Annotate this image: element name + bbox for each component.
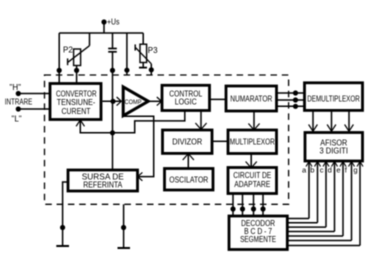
ground bar P3 stub (139, 67, 147, 69)
wire BCD line 1 (232, 194, 234, 217)
op-amp comparator COMP (123, 87, 148, 116)
potentiometer P3 (135, 44, 158, 64)
wire comparator to control logic (148, 100, 161, 102)
node junction dot middle ground (121, 225, 126, 230)
wire sursa to ground (63, 182, 68, 245)
wire oscilator to divizor (183, 154, 194, 169)
node junction dot sursa ground (60, 225, 65, 230)
wire input L (18, 108, 49, 110)
wire multiplexor to circuit de adaptare (246, 154, 257, 168)
svg-text:g: g (353, 166, 357, 175)
block control logic U2 (162, 85, 210, 110)
segment line d (288, 161, 338, 231)
svg-text:DEMULTIPLEXOR: DEMULTIPLEXOR (307, 95, 360, 104)
svg-text:LOGIC: LOGIC (175, 98, 197, 107)
wire rail right corner to P3 (142, 33, 144, 44)
node junction dot P3 wiper (149, 67, 154, 72)
wire comparator reference to sursa (123, 116, 154, 181)
wire capacitor down to comparator input (112, 52, 114, 170)
svg-text:REFERINTA: REFERINTA (83, 181, 122, 190)
node dot bit 2 (293, 97, 298, 102)
segment line c (288, 161, 330, 227)
arrowhead into comparator (117, 97, 122, 106)
wire P3 bottom stub (142, 63, 144, 67)
node junction dot capacitor boundary (110, 68, 115, 73)
arrowhead into control logic (157, 97, 162, 106)
svg-text:3 DIGITI: 3 DIGITI (320, 147, 349, 156)
svg-text:b: b (310, 166, 314, 175)
dashed instrument boundary (45, 75, 289, 204)
wire supply feed into block (126, 33, 128, 75)
wire input H (18, 93, 49, 95)
node junction dot supply feed (124, 68, 129, 73)
svg-text:CIRCUIT DE: CIRCUIT DE (233, 171, 271, 180)
wire demux to afisor 2 (327, 110, 336, 131)
node dot bit 3 (293, 104, 298, 109)
wire P3 wiper into block (150, 64, 152, 75)
wire top supply rail (59, 32, 143, 34)
wire numarator output bit 2 (277, 99, 305, 101)
wire demux to afisor 1 (309, 110, 318, 131)
block decodor BCD-7 segmente U11 (229, 216, 287, 250)
svg-text:"L": "L" (12, 115, 22, 124)
wire numarator output bit 3 (277, 105, 305, 107)
wire BCD line 4 (262, 194, 264, 217)
wire control logic to numarator (210, 98, 227, 100)
block multiplexor U7 (228, 130, 277, 154)
svg-text:NUMARATOR: NUMARATOR (230, 95, 272, 104)
svg-text:DIVIZOR: DIVIZOR (172, 138, 202, 147)
ground left (56, 245, 69, 247)
svg-text:COMP: COMP (125, 99, 142, 106)
wire BCD line 3 (253, 194, 255, 217)
node dot BCD 2 (240, 206, 245, 211)
wire feedback staircase control logic to convertor (76, 111, 185, 133)
svg-text:TENSIUNE-: TENSIUNE- (57, 98, 96, 107)
block numarator U3 (226, 86, 277, 111)
node terminal L (12, 106, 22, 123)
svg-text:P3: P3 (148, 46, 158, 55)
block divizor U6 (163, 130, 213, 153)
segment line a (288, 161, 313, 218)
wire boundary to ground middle (123, 204, 125, 247)
node dot BCD 3 (251, 206, 256, 211)
node junction dot feedback on sursa line (110, 130, 115, 135)
segment line e (288, 161, 347, 236)
wire divizor to multiplexor (212, 140, 228, 142)
segment line b (288, 161, 321, 222)
node +Us (101, 18, 119, 27)
node junction dot P2 bottom (74, 68, 79, 73)
wire +Us to rail (103, 22, 105, 33)
svg-text:SEGMENTE: SEGMENTE (240, 235, 276, 244)
svg-text:INTRARE: INTRARE (5, 97, 33, 106)
node dot BCD 4 (260, 206, 265, 211)
svg-text:CURENT: CURENT (62, 107, 91, 116)
node dot BCD 1 (230, 206, 235, 211)
block sursa de referinta U10 (68, 170, 138, 191)
svg-text:MULTIPLEXOR: MULTIPLEXOR (230, 138, 275, 147)
capacitor C1 (108, 33, 117, 52)
wire convertor to comparator (103, 100, 121, 102)
wire numarator to multiplexor (248, 111, 259, 130)
block oscilator U8 (165, 169, 214, 191)
wire numarator output bit 1 (277, 92, 305, 94)
svg-text:c: c (320, 166, 324, 175)
block afisor 3 digiti U5 (305, 133, 363, 162)
node junction dot on comparator input (110, 99, 115, 104)
wire BCD line 2 (242, 194, 244, 217)
wire demux to afisor 3 (345, 110, 354, 131)
block demultiplexor U4 (305, 83, 363, 111)
svg-text:P2: P2 (63, 45, 73, 54)
block circuit de adaptare U9 (228, 168, 277, 194)
ground middle (118, 247, 131, 249)
segment line g (288, 161, 364, 245)
svg-text:e: e (336, 166, 340, 175)
node dot bit 1 (293, 90, 298, 95)
svg-text:+Us: +Us (107, 18, 120, 27)
node junction dot left branch (57, 68, 62, 73)
wire P2 bottom to convertor (76, 66, 78, 84)
wire control logic to divizor (195, 111, 206, 130)
segment line f (288, 161, 355, 240)
svg-text:d: d (328, 166, 332, 175)
wire left branch to convertor (58, 33, 60, 84)
block convertor tensiune-curent U1 (50, 84, 101, 120)
svg-text:OSCILATOR: OSCILATOR (169, 175, 208, 184)
svg-text:ADAPTARE: ADAPTARE (234, 180, 270, 189)
svg-text:"H": "H" (10, 83, 22, 92)
svg-text:CONVERTOR: CONVERTOR (56, 89, 97, 98)
wire P2 wiper to rail (89, 33, 91, 46)
potentiometer P2 (63, 45, 90, 65)
node terminal H (10, 83, 22, 96)
